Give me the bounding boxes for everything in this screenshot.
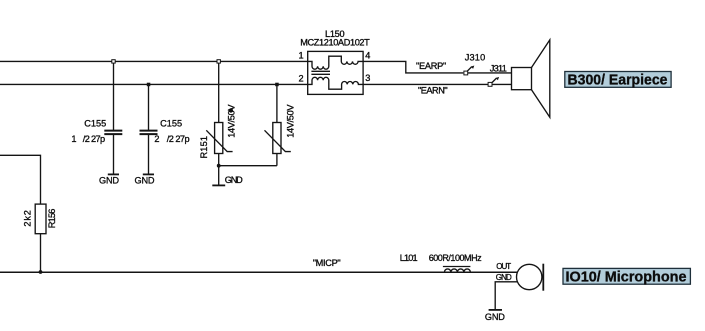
- svg-text:/2 27p: /2 27p: [83, 134, 105, 144]
- svg-text:2k2: 2k2: [22, 210, 32, 227]
- svg-text:OUT: OUT: [496, 262, 511, 271]
- svg-text:C155: C155: [84, 119, 106, 129]
- svg-text:"EARN": "EARN": [418, 86, 448, 96]
- svg-text:1: 1: [71, 134, 76, 144]
- svg-text:2: 2: [299, 73, 304, 83]
- svg-text:R156: R156: [47, 209, 57, 229]
- svg-text:L101: L101: [400, 253, 418, 263]
- svg-text:"EARP": "EARP": [416, 61, 446, 71]
- svg-text:1: 1: [299, 51, 304, 61]
- svg-text:GND: GND: [225, 175, 243, 185]
- svg-text:IO10/ Microphone: IO10/ Microphone: [566, 269, 687, 285]
- svg-text:4: 4: [365, 51, 370, 61]
- svg-text:14V/50V: 14V/50V: [285, 104, 295, 138]
- svg-text:GND: GND: [99, 176, 119, 186]
- svg-text:2: 2: [154, 134, 159, 144]
- svg-text:/2 27p: /2 27p: [167, 134, 190, 144]
- svg-text:C155: C155: [160, 119, 182, 129]
- svg-text:600R/100MHz: 600R/100MHz: [429, 253, 482, 263]
- svg-text:14V/50V: 14V/50V: [227, 104, 237, 138]
- svg-text:GND: GND: [485, 312, 505, 322]
- svg-text:"MICP": "MICP": [313, 258, 341, 268]
- svg-text:J310: J310: [465, 53, 485, 63]
- svg-text:MCZ1210AD102T: MCZ1210AD102T: [300, 38, 370, 48]
- svg-text:B300/ Earpiece: B300/ Earpiece: [568, 72, 668, 88]
- svg-text:J311: J311: [490, 64, 507, 74]
- svg-text:R151: R151: [199, 136, 209, 159]
- svg-text:GND: GND: [496, 273, 512, 282]
- svg-text:GND: GND: [135, 176, 155, 186]
- svg-text:3: 3: [365, 73, 370, 83]
